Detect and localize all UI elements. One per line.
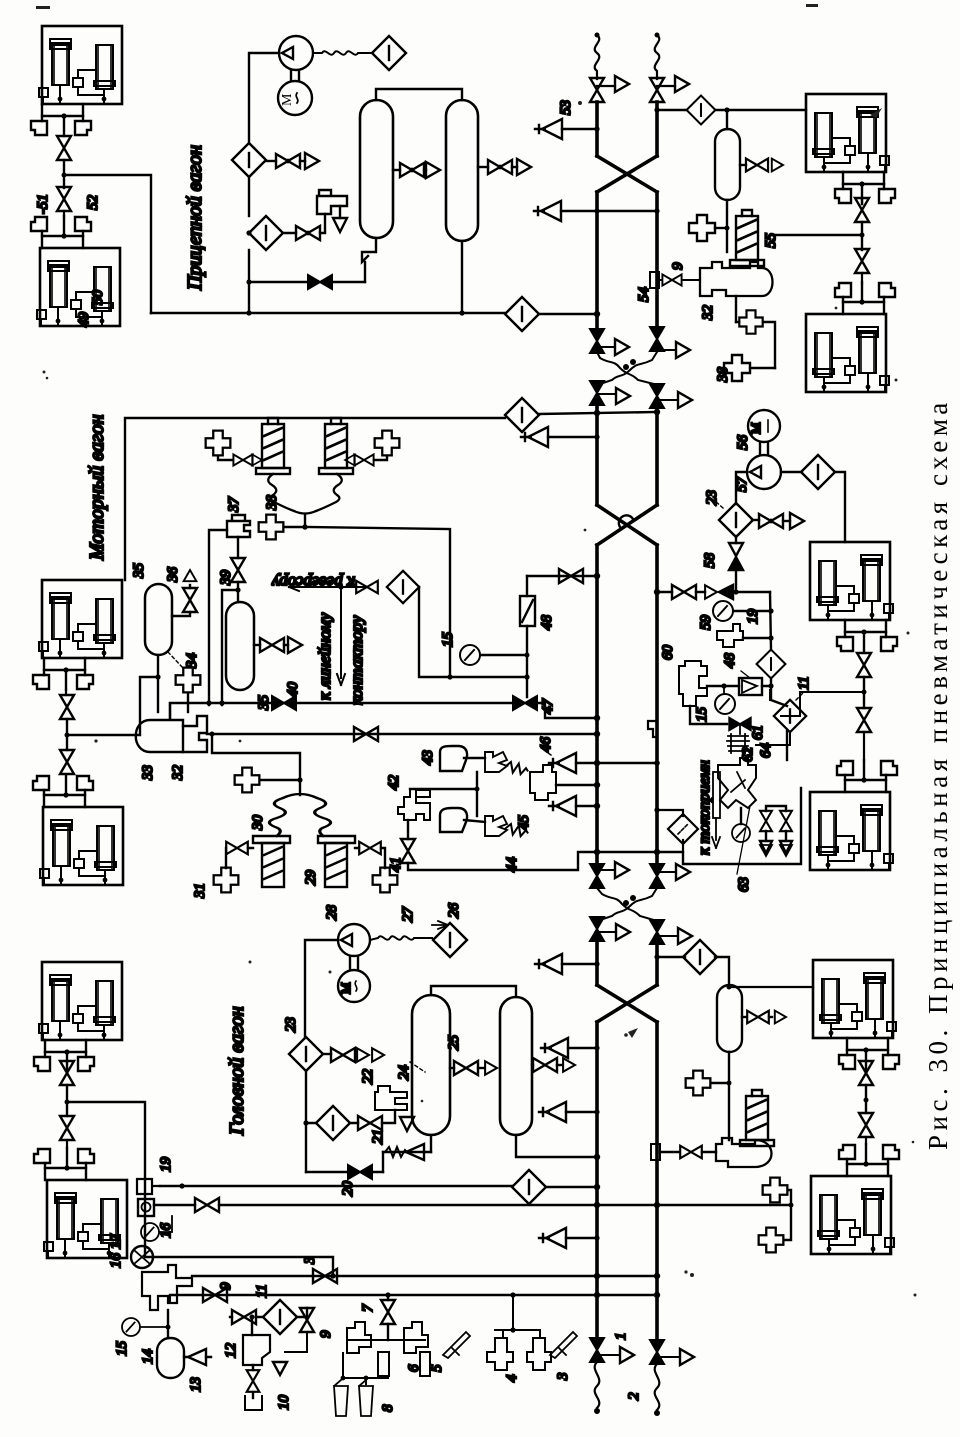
X crossover top [597, 156, 657, 192]
left valve+cross 31 [226, 842, 248, 855]
wire right trunk car1 [655, 192, 659, 334]
valve right of 23' [752, 519, 759, 521]
top feed line [125, 418, 505, 580]
check 45line [549, 796, 576, 816]
flag 19 [137, 1179, 160, 1194]
valve on 35b [254, 644, 260, 646]
valve 51 [57, 136, 71, 160]
wire 222 vertical [222, 590, 238, 705]
svg-text:25: 25 [446, 1035, 462, 1051]
valve right of 23 [323, 1053, 331, 1055]
svg-text:11: 11 [796, 676, 812, 690]
valve right of aux [740, 164, 746, 166]
diamond 26 [433, 923, 467, 957]
EPV 55 [730, 210, 764, 266]
second diamond [249, 216, 283, 250]
aux reservoir right [715, 129, 740, 200]
svg-text:Прицепной вагон: Прицепной вагон [184, 145, 206, 291]
valve 3 [313, 1269, 337, 1283]
svg-text:3: 3 [302, 1257, 318, 1266]
motor [338, 970, 370, 1002]
reservoir 35a [145, 584, 172, 655]
svg-text:9: 9 [670, 262, 686, 270]
svg-text:60: 60 [660, 645, 676, 661]
end valves bottom [590, 1338, 604, 1362]
check triangle 53 [535, 119, 562, 139]
line 1276 [192, 1275, 657, 1277]
wire 37 down, valve 39 [237, 537, 239, 558]
wire trunks car3 upper [595, 940, 599, 985]
brake unit box L1b [37, 248, 120, 326]
main feed line to trunk [151, 312, 505, 315]
device 45 [530, 765, 556, 800]
drip triangle [400, 1117, 414, 1131]
valve 47 [513, 696, 537, 710]
feet under L1a [31, 104, 91, 136]
compressor 57 [747, 455, 781, 489]
svg-text:21: 21 [370, 1129, 386, 1144]
svg-text:39: 39 [218, 570, 234, 587]
feet above L2b [33, 775, 93, 807]
wire right trunk upper [655, 102, 659, 156]
group A devices [347, 1339, 425, 1341]
line y734 [207, 733, 597, 736]
svg-text:8: 8 [380, 1404, 396, 1412]
svg-text:7: 7 [360, 1303, 376, 1312]
crosses right [763, 1178, 788, 1203]
wire [66, 719, 68, 750]
bottom loop to trunk [408, 852, 597, 870]
valve right of reservoir 2 [488, 160, 512, 174]
brake unit box L1a [39, 26, 122, 104]
check hook under reservoir1 [362, 238, 376, 262]
pantograph EPV unit top: left cylinder [256, 418, 290, 474]
riser [770, 592, 787, 706]
stem [728, 1052, 730, 1140]
feed from 33 [212, 734, 300, 795]
svg-text:-51: -51 [35, 194, 51, 214]
svg-text:50: 50 [90, 290, 106, 306]
EPV [740, 1090, 774, 1146]
valve right [742, 1016, 746, 1018]
compressor 28 [338, 924, 370, 956]
trunk tap valve 54 [657, 279, 662, 281]
feed diamond [505, 398, 539, 432]
svg-text:16 17: 16 17 [108, 1233, 124, 1268]
svg-text:24: 24 [396, 1065, 412, 1081]
svg-text:61: 61 [750, 725, 766, 740]
gauge [141, 1223, 159, 1241]
svg-text:53: 53 [558, 100, 574, 115]
svg-text:35: 35 [131, 563, 147, 580]
svg-text:1: 1 [613, 1333, 629, 1341]
cross 34 [176, 668, 201, 693]
svg-text:3: 3 [555, 1373, 571, 1382]
reservoir 1 [360, 100, 393, 238]
svg-text:63: 63 [736, 877, 752, 892]
svg-text:23: 23 [283, 1017, 299, 1032]
svg-text:43: 43 [420, 750, 436, 765]
svg-text:4: 4 [504, 1374, 520, 1382]
wire trunks car2 upper [595, 402, 599, 505]
valve left [233, 454, 252, 465]
svg-text:13: 13 [188, 1377, 204, 1392]
aux reservoir [717, 985, 742, 1052]
cross fitting [689, 215, 715, 241]
cross 38 [259, 515, 284, 540]
funnels 8 [334, 1380, 348, 1416]
reservoir2 drain [461, 241, 463, 313]
muffler triangle left top [615, 76, 629, 92]
valve 7 [387, 1295, 389, 1340]
svg-text:29: 29 [303, 870, 319, 886]
device 60 [679, 661, 707, 706]
svg-text:9: 9 [318, 1330, 334, 1338]
svg-text:14: 14 [140, 1349, 156, 1365]
valve body [716, 1138, 772, 1167]
svg-text:2: 2 [626, 1392, 642, 1400]
svg-text:15: 15 [440, 632, 456, 648]
arrow 26 [432, 921, 448, 929]
svg-text:Головной вагон: Головной вагон [226, 1006, 248, 1136]
check triangles to trunk [535, 954, 562, 974]
svg-text:к реверсору: к реверсору [271, 573, 355, 592]
reservoir 35b [226, 602, 254, 690]
wire top connect [376, 89, 462, 100]
valve right trunk top [650, 78, 664, 102]
wire right trunk top hose [655, 35, 660, 79]
wire down [306, 1071, 315, 1172]
svg-text:15: 15 [114, 1341, 130, 1357]
diamond right top [657, 956, 685, 958]
check triangle y211 [534, 201, 561, 221]
svg-text:28: 28 [324, 905, 340, 921]
gauge 15'' [715, 694, 735, 714]
svg-text:11: 11 [254, 1284, 270, 1298]
svg-text:Моторный вагон: Моторный вагон [86, 414, 108, 561]
trunk tap [651, 1144, 660, 1160]
jag 45b [485, 816, 507, 836]
device 12 [243, 1335, 270, 1365]
wire left drop from 37 [209, 530, 227, 705]
35a stem [157, 655, 159, 712]
vertical connect [410, 772, 477, 816]
svg-text:12: 12 [223, 1343, 239, 1359]
circle-X 17 [131, 1246, 153, 1268]
wire to diamond 23 [736, 472, 747, 504]
line 45 to trunk [556, 784, 597, 786]
diamond on line 855 [668, 814, 698, 844]
svg-text:58: 58 [702, 553, 718, 569]
valve 40 [272, 696, 296, 710]
valve right of 25 [532, 1064, 533, 1066]
device 16 + line 1205 [138, 1199, 154, 1216]
wire [248, 177, 250, 216]
bell 44 [440, 808, 467, 832]
gauge 59 [713, 601, 733, 621]
stems [431, 1135, 597, 1157]
gauge 15 [460, 645, 480, 665]
hose 27 [370, 936, 432, 940]
cross 31b [235, 768, 260, 793]
svg-text:15: 15 [694, 707, 710, 723]
device 19' [717, 624, 743, 647]
к реверсору arrow [289, 583, 367, 591]
check 58 [735, 536, 737, 543]
valve 61 filled [729, 718, 751, 731]
svg-text:19: 19 [158, 1157, 174, 1173]
svg-text:32: 32 [700, 305, 716, 322]
valve 36 [172, 612, 190, 616]
diamond right [781, 471, 802, 473]
inter-car hoses crossing [597, 352, 654, 384]
svg-text:48: 48 [539, 615, 555, 631]
lever 3 [550, 1332, 577, 1358]
device 22 [375, 1086, 407, 1110]
valve left trunk top [590, 78, 604, 102]
wire feed [67, 677, 158, 735]
svg-text:к токоприемн: к токоприемн [696, 760, 713, 855]
X crossover mid [597, 505, 657, 545]
drip triangle [273, 1362, 287, 1375]
lever 5 [443, 1332, 470, 1358]
svg-text:59: 59 [698, 615, 714, 631]
svg-text:М: М [280, 93, 295, 106]
wire trunks car2 lower [595, 545, 599, 865]
svg-text:46: 46 [538, 737, 554, 753]
feet above L1b [31, 216, 91, 248]
svg-text:54: 54 [636, 287, 652, 303]
compressor circle [279, 36, 313, 70]
right valve+cross [359, 842, 381, 855]
svg-text:32: 32 [170, 765, 186, 782]
device 42 [398, 790, 430, 820]
long line 1186 [160, 1185, 512, 1187]
device 48 [520, 596, 535, 626]
svg-text:37: 37 [226, 496, 242, 514]
diamond small [757, 650, 786, 679]
svg-text:19: 19 [745, 609, 761, 625]
bell 43 [440, 746, 467, 771]
svg-text:56: 56 [735, 435, 751, 451]
wire left trunk top hose [595, 35, 600, 79]
flag fitting on trunk [648, 721, 657, 737]
valve [60, 750, 74, 774]
svg-text:36: 36 [165, 567, 181, 584]
valve between reservoirs [400, 163, 424, 177]
check 13 [188, 1349, 206, 1365]
right cylinder [319, 418, 353, 474]
svg-text:М: М [338, 982, 353, 994]
svg-text:6: 6 [406, 1364, 422, 1372]
cross left [206, 431, 231, 456]
jag 45a [485, 752, 507, 772]
wire pipe to car line [64, 175, 151, 313]
diamond 11 [774, 700, 806, 732]
wire from compressor left down [249, 53, 279, 143]
wire left trunk upper [595, 102, 599, 156]
wire compressor to 23 [305, 940, 338, 1037]
svg-text:9: 9 [218, 1282, 234, 1290]
svg-text:38: 38 [264, 495, 280, 512]
X crossover car3 [597, 985, 657, 1022]
svg-text:27: 27 [400, 906, 416, 923]
gauge small [740, 808, 742, 824]
svg-text:30: 30 [250, 815, 266, 832]
valve [60, 695, 74, 719]
valve 10 + bucket [252, 1365, 254, 1370]
top link [431, 986, 516, 997]
reservoir 14 [157, 1338, 184, 1378]
wire bottom hoses [595, 1362, 600, 1408]
pipe from boxes to epv line [775, 234, 862, 236]
brake unit box L2b [40, 807, 123, 885]
brake unit box L2a [39, 580, 122, 658]
valves inter-car 1 [590, 329, 604, 353]
release valve filled [308, 275, 332, 289]
svg-text:34: 34 [184, 653, 200, 670]
wire compressor-motor [291, 70, 299, 81]
twin valves [766, 806, 786, 811]
valve body 32 [700, 262, 773, 296]
svg-text:49: 49 [76, 312, 92, 328]
intake filter diamond [372, 36, 406, 70]
main line y705 [170, 703, 513, 718]
reservoir 2 [446, 100, 478, 241]
wire feed [67, 1102, 153, 1257]
svg-text:Рис. 30. Принципиальная пневма: Рис. 30. Принципиальная пневматическая с… [923, 398, 953, 1150]
drain device [317, 190, 347, 214]
inter-car hoses 2 crossing [597, 888, 654, 920]
check 46 [549, 753, 576, 773]
svg-text:к линейному: к линейному [315, 612, 334, 700]
svg-text:10: 10 [276, 1395, 292, 1411]
svg-text:52: 52 [85, 195, 101, 211]
wire left trunk car1 [595, 192, 599, 334]
valve between reservoirs [450, 1067, 454, 1069]
svg-text:33: 33 [140, 765, 156, 781]
valve right [354, 454, 373, 465]
filter diamond [316, 1106, 350, 1140]
valve 41 [407, 820, 409, 839]
aux stem [726, 200, 728, 252]
diamond 23' [719, 503, 753, 537]
brake valve 33 body [136, 720, 183, 752]
valve [276, 154, 300, 168]
svg-text:М: М [748, 422, 763, 434]
device 37 [227, 515, 250, 537]
wire [248, 250, 250, 313]
device 48' [739, 678, 762, 695]
valve 20 [348, 1165, 372, 1179]
cross [686, 1071, 711, 1096]
check triangle [521, 427, 548, 447]
feed line to right box [729, 986, 813, 988]
device 63 pantograph feeder [718, 758, 756, 808]
motor 56 [748, 410, 780, 442]
muffler 62 [727, 724, 749, 753]
wire from diamond down to 47 [419, 587, 527, 697]
right feed diamond [657, 109, 687, 111]
svg-text:22: 22 [360, 1069, 376, 1085]
valve [296, 226, 320, 240]
long line to right boxes [597, 788, 801, 864]
svg-text:47: 47 [540, 698, 556, 715]
svg-text:40: 40 [285, 682, 301, 698]
svg-text:контактору: контактору [347, 615, 366, 705]
reservoir 25 [500, 997, 532, 1135]
svg-text:38: 38 [715, 367, 731, 384]
valve 22 [358, 1116, 382, 1130]
bellows left [268, 474, 294, 511]
line y576 with valve [527, 575, 597, 577]
strainer diamond [232, 143, 266, 177]
spring 21 + check [383, 1151, 431, 1153]
line y592 [657, 591, 672, 593]
group B [495, 1295, 540, 1330]
svg-text:42: 42 [386, 775, 402, 791]
cross 38 [739, 310, 762, 333]
epv left [253, 836, 290, 843]
motor M~ [278, 81, 312, 115]
valve 52 [57, 187, 71, 211]
reservoir 24 [412, 995, 450, 1135]
svg-text:5: 5 [429, 1364, 445, 1372]
svg-text:20: 20 [340, 1181, 356, 1197]
feet under L2a [33, 658, 93, 690]
wires cluster [756, 690, 790, 745]
svg-text:48: 48 [722, 653, 738, 669]
gauge 15 [122, 1318, 140, 1336]
valves inter-car 2 [590, 864, 604, 888]
wire hose to filter [313, 51, 372, 54]
wire from 38 to filter line [305, 527, 450, 677]
row 9b 11 9c [232, 1310, 256, 1324]
device bottom stem [167, 1310, 169, 1338]
svg-text:31: 31 [192, 883, 208, 899]
valve [356, 581, 378, 594]
wire [63, 160, 65, 188]
epv right [318, 836, 355, 843]
line 1295 [170, 1294, 657, 1296]
device 16-17 EPK [142, 1265, 192, 1310]
wire trunks car3 main [595, 1022, 599, 1340]
bellows [269, 794, 330, 836]
svg-text:26: 26 [446, 903, 462, 919]
feed diamond [505, 297, 539, 331]
muffler triangle right top [675, 76, 689, 92]
diamond 23 [289, 1037, 323, 1071]
cross right [375, 431, 400, 456]
